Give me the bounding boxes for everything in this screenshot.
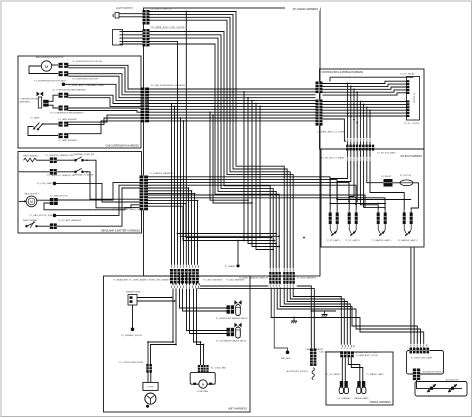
connector stack conditioner fan A: [198, 365, 203, 373]
svg-text:TO_RAG_MOTOR: TO_RAG_MOTOR: [50, 195, 68, 198]
arrowhead motor feed: [24, 200, 27, 202]
lamp socket L2: [357, 381, 366, 394]
horn H1: [143, 382, 158, 407]
svg-text:XX_RELAY: XX_RELAY: [381, 175, 392, 178]
svg-text:TO_SUSPENSION MOTOR ASSY: TO_SUSPENSION MOTOR ASSY: [34, 80, 67, 83]
svg-text:THERMAL_FUSE_SW: THERMAL_FUSE_SW: [73, 153, 94, 156]
connector stack piddle A: [340, 351, 346, 357]
wire row2 from left: [19, 171, 50, 173]
wire rag sub: [56, 185, 140, 215]
pin ticks MX groups: [330, 210, 412, 212]
connector TO_DEFROST_HEATER_SW: [50, 157, 57, 163]
wire row1 continue: [84, 160, 140, 208]
connector stack horn: [146, 364, 152, 373]
wire bundle CT down to MX row: [323, 84, 371, 145]
fuse group 3: [377, 213, 387, 234]
fuse group 2 lamp: [350, 231, 356, 236]
harness box CONTROL BOX: [320, 69, 425, 149]
connector stack TO_WIRE_ASSY_CT_LINER lower: [316, 100, 323, 126]
svg-text:TO_WIRE_ASSY_HARN_20: TO_WIRE_ASSY_HARN_20: [112, 208, 139, 211]
harness box ACCESSORY TOP: [407, 351, 444, 375]
fuse group 3 lamp: [379, 231, 385, 236]
svg-text:ASSEMBLY: ASSEMBLY: [20, 101, 31, 104]
wire bundle liner vertical tees: [210, 92, 279, 250]
svg-text:CONTROL BOX & MOBILE HARNESS: CONTROL BOX & MOBILE HARNESS: [322, 71, 364, 74]
fuse group 4 lamp: [405, 231, 411, 236]
connector stack UNIT top 2: [177, 269, 184, 284]
svg-text:TO_LIGHT_SWITCH: TO_LIGHT_SWITCH: [151, 8, 173, 10]
wire dimmer down: [132, 305, 134, 328]
harness box PC LINER: [144, 8, 321, 276]
connector stack accessory lower: [413, 369, 420, 381]
wire valve1 feeds: [180, 274, 227, 312]
splice TO_SUSPENSION_MOTOR_ASSY: [62, 83, 66, 87]
wire bundle to piddle: [284, 284, 350, 349]
svg-text:HORN: HORN: [148, 387, 154, 389]
svg-text:TO_ST_LAMP_L: TO_ST_LAMP_L: [327, 239, 341, 242]
svg-text:TO_CONDI_FAN: TO_CONDI_FAN: [211, 367, 227, 370]
harness box CAB SUSPENSION: [18, 56, 141, 148]
connector pair TO_LAMP_ELEMENT2: [59, 133, 69, 138]
svg-text:TO_COMPRESSOR FAN ASSEMBLY: TO_COMPRESSOR FAN ASSEMBLY: [50, 111, 84, 114]
svg-text:CAB SUSPENSION HARNESS: CAB SUSPENSION HARNESS: [106, 145, 140, 148]
wire bundle CT to relay upper: [323, 77, 414, 96]
wire heater to block: [36, 159, 49, 161]
svg-text:TO_ST_LAMP_R: TO_ST_LAMP_R: [345, 239, 360, 242]
harness box MX BOX: [321, 149, 424, 247]
harness box ACCESSORY BOTTOM: [415, 382, 467, 397]
relay K1: [384, 179, 393, 187]
connector stack conditioner fan B: [203, 365, 208, 373]
svg-text:TO_OIL_PANEL: TO_OIL_PANEL: [325, 373, 340, 376]
svg-text:MX BOX HARNESS: MX BOX HARNESS: [400, 155, 422, 158]
pin ticks MX below row: [347, 158, 370, 160]
indicator lamp A2: [448, 384, 457, 392]
svg-text:EASY HEATER: EASY HEATER: [24, 155, 39, 158]
svg-text:TO_CONDITIONER HORN: TO_CONDITIONER HORN: [119, 362, 144, 364]
svg-text:TO_ST_COVER: TO_ST_COVER: [404, 123, 420, 125]
thermal fuse switch SW2: [74, 168, 84, 173]
connector dimmer wire: [128, 295, 137, 306]
svg-text:PIDDLE HARNESS: PIDDLE HARNESS: [370, 401, 391, 404]
wire bundle CT to relay lower: [323, 102, 407, 117]
svg-text:TO_ANT_HARNESS: TO_ANT_HARNESS: [226, 278, 245, 281]
svg-text:BAT_NEG: BAT_NEG: [281, 357, 291, 360]
svg-text:TO_LAMP ELEMENT: TO_LAMP ELEMENT: [58, 139, 78, 142]
svg-text:RAG MOTOR: RAG MOTOR: [25, 193, 38, 196]
connector stack PC bottom left A: [269, 272, 274, 284]
fuse group 4: [403, 213, 413, 234]
svg-text:CHANNEL_WATER: CHANNEL_WATER: [305, 348, 323, 351]
wire tee drop from light switch: [185, 12, 187, 269]
wire low lamp: [56, 183, 140, 202]
svg-text:TO_HEADLAMP_PC_LINER_BRAKET_HO: TO_HEADLAMP_PC_LINER_BRAKET_HORN_UNIT_BR…: [113, 278, 171, 281]
svg-text:TO_SPARE: TO_SPARE: [225, 265, 236, 268]
wire bundle MX bus: [330, 200, 411, 204]
resistor R1 heater element: [24, 158, 37, 162]
wire horn leads: [148, 372, 151, 382]
svg-text:TO_DIMMER_SPLICE: TO_DIMMER_SPLICE: [121, 335, 143, 337]
connector stack piddle B: [347, 351, 353, 357]
wire rag motor loop: [44, 206, 140, 210]
pin ticks PC bottom above: [270, 269, 294, 272]
wire bundle piddle interior: [342, 357, 363, 381]
svg-text:TO_CAB_SUSPENSION_HARNESS: TO_CAB_SUSPENSION_HARNESS: [151, 84, 186, 87]
svg-text:TO_WIRE_ASSY_LIVE_GAUGE: TO_WIRE_ASSY_LIVE_GAUGE: [151, 26, 185, 29]
connector stack UNIT top 3: [185, 269, 192, 284]
lamp flasher symbol: [33, 123, 43, 131]
pin ticks piddle above: [342, 345, 354, 347]
svg-text:LIGHT SWITCH: LIGHT SWITCH: [116, 8, 133, 10]
connector stack TO_LIGHT_SWITCH: [143, 10, 150, 25]
connector stack UNIT top 4: [192, 269, 199, 284]
wire rag motor out: [58, 182, 140, 200]
connector stack TO_WIRE_ASSY_CT_LINER upper: [316, 82, 323, 94]
wire bat sw: [38, 225, 50, 227]
svg-text:COMPRESSOR FAN: COMPRESSOR FAN: [20, 98, 39, 101]
svg-text:F_LAMB_ASSY_ROOM: F_LAMB_ASSY_ROOM: [356, 354, 378, 357]
connector pair TO_LAMP_ELEMENT: [59, 122, 69, 127]
wire spare drop: [237, 241, 239, 265]
connector pair TO_COMP_FAN: [59, 106, 69, 111]
splice TO_LOW_LAMP: [53, 182, 57, 186]
lamp socket L1: [339, 381, 348, 394]
svg-text:TO_WIPER/DRIP WASHER VALVE: TO_WIPER/DRIP WASHER VALVE: [216, 317, 248, 320]
svg-text:TO_LAMP ELEMENT: TO_LAMP ELEMENT: [58, 118, 78, 121]
connector row accessory top: [410, 348, 430, 354]
solenoid valve V1: [227, 300, 242, 315]
wire row2 continue: [84, 172, 140, 199]
svg-text:ST RELAY: ST RELAY: [413, 93, 416, 104]
svg-text:TO_WIRE_ASSY_CT_LINER: TO_WIRE_ASSY_CT_LINER: [317, 131, 345, 134]
wire bundle liner drops to unit: [172, 104, 184, 269]
fuse group 2: [348, 213, 358, 234]
svg-text:TO_WIRE_ASSY_STANDARD_LINER: TO_WIRE_ASSY_STANDARD_LINER: [68, 84, 104, 87]
harness box UNIT: [104, 276, 251, 412]
wire bundle light-switch circuit: [150, 12, 294, 273]
wire motor right: [37, 199, 50, 201]
splice TO_RAG_MOTOR_SUB: [53, 214, 57, 218]
connector row control to MX: [346, 145, 375, 151]
connector stack TO_WIRE_ASSY_LIVE_GAUGE: [143, 29, 150, 46]
battery disconnect switch: [25, 221, 37, 228]
connector pair TO_COMP_FAN_SW: [59, 93, 69, 98]
connector stack accessory socket: [310, 349, 316, 366]
splice TO_DIMMER: [131, 328, 135, 332]
svg-text:AIR SUSPENSION MOTOR: AIR SUSPENSION MOTOR: [36, 56, 64, 59]
wire accessory ground link: [311, 310, 336, 312]
wire bundle liner main horizontals: [148, 89, 316, 121]
wire lamp to pair: [42, 123, 59, 125]
svg-text:M: M: [30, 200, 33, 204]
connector light switch plug: [113, 13, 119, 19]
svg-text:ACCESSORY: ACCESSORY: [446, 378, 459, 381]
svg-text:OIL_CHANNEL: OIL_CHANNEL: [337, 397, 350, 400]
splice BAT_NEG: [286, 351, 290, 355]
wire row1 to right: [57, 159, 74, 161]
wire bundle headlamp long runs: [148, 177, 386, 211]
pin ticks PC bottom below: [270, 285, 294, 287]
svg-text:DIMMER WIRE: DIMMER WIRE: [126, 292, 141, 294]
wire bundle gauge circuit: [150, 32, 280, 273]
fan motor M3: [190, 372, 215, 388]
connector live gauge block: [113, 30, 123, 46]
svg-text:TO_COMP FAN SW MAIN HARNESS: TO_COMP FAN SW MAIN HARNESS: [52, 88, 86, 91]
splice TO_SPARE: [236, 264, 239, 267]
wire bundle unit-stack cross ties: [178, 234, 280, 237]
svg-text:THERMAL_FUSE_SU: THERMAL_FUSE_SU: [73, 173, 94, 176]
connector TO_DEFROST_HEATER_SU: [50, 169, 57, 175]
wire fan lower: [49, 105, 58, 108]
connector stack TO_CAB_SUSPENSION: [141, 88, 150, 123]
ground G1: [291, 318, 297, 324]
wire bundle cab suspension to liner: [65, 65, 141, 133]
svg-text:TO_SUSPENSION MOTOR SW: TO_SUSPENSION MOTOR SW: [72, 61, 102, 63]
pin ticks RB1: [410, 344, 427, 346]
svg-text:UNIT HARNESS: UNIT HARNESS: [228, 407, 248, 411]
indicator lamp A1: [427, 384, 436, 392]
connector TO_XX_BAT_HARNESS: [50, 223, 57, 229]
motor M1 air suspension: [41, 61, 51, 71]
svg-text:EASYDISRBAT: EASYDISRBAT: [23, 219, 38, 222]
connector stack TO_HEADLAMP_BATTERY: [140, 176, 149, 211]
svg-text:TO_SMTH_HSG_LAMP: TO_SMTH_HSG_LAMP: [411, 356, 433, 359]
connector TO_RAG_MOTOR: [50, 198, 58, 205]
svg-text:TO_OIL WASHER WATER VALVE: TO_OIL WASHER WATER VALVE: [216, 340, 247, 343]
wire bundle unit center: [148, 284, 204, 366]
svg-text:TO_DEFROST_HEATER_SW: TO_DEFROST_HEATER_SW: [45, 154, 73, 157]
svg-text:TO_MX_BOX_CT_HARN: TO_MX_BOX_CT_HARN: [321, 156, 344, 159]
svg-text:TO_MARKER_LAMP_L: TO_MARKER_LAMP_L: [372, 239, 392, 242]
pin break bands: [169, 138, 431, 348]
wire accessory lamps run: [424, 388, 462, 390]
wire bundle unit to accessory: [196, 284, 314, 349]
wire gauge block to stack: [123, 32, 143, 45]
pin ticks CT above row: [347, 139, 370, 141]
wire valve2 feeds: [187, 274, 227, 334]
svg-text:WASHER HARN: WASHER HARN: [354, 397, 369, 400]
motor M2 rag motor: [26, 196, 37, 207]
svg-text:ACCESSORY SWITCH: ACCESSORY SWITCH: [423, 371, 444, 374]
connector stack PC bottom right A: [283, 272, 288, 284]
svg-text:TO_LAMP_ASSY_RIGHT: TO_LAMP_ASSY_RIGHT: [355, 351, 379, 354]
fuse group 1 lamp: [331, 231, 337, 236]
wire motor to pair: [52, 64, 58, 66]
wire row2 middle: [57, 171, 74, 173]
svg-text:TO_SUSPENSION MOTOR: TO_SUSPENSION MOTOR: [72, 79, 98, 81]
ground G2: [322, 311, 328, 317]
wire relay to link: [393, 182, 401, 184]
wire bundle MX distribution: [330, 151, 418, 213]
wire bat out: [57, 188, 140, 226]
fuse group 1: [329, 213, 339, 234]
svg-text:CONDI FAN: CONDI FAN: [197, 390, 208, 393]
solenoid valve V2: [227, 323, 242, 338]
pin ticks unit below: [171, 286, 199, 288]
svg-text:TO_RAG_MOTOR_SUB: TO_RAG_MOTOR_SUB: [29, 214, 52, 217]
svg-text:TO_LAMP: TO_LAMP: [30, 117, 40, 120]
wire bundle headlamp drops to unit: [148, 188, 275, 269]
svg-text:TO_XX_BAT_HARNESS: TO_XX_BAT_HARNESS: [58, 219, 82, 222]
harness box PIDDLE: [326, 352, 393, 405]
compressor fan F1: [37, 92, 49, 109]
svg-text:M: M: [45, 64, 48, 69]
svg-text:TO_MX_BOX_MAIN: TO_MX_BOX_MAIN: [377, 151, 396, 154]
connector stack PC bottom right B: [289, 272, 294, 284]
connector pair TO_SUSPENSION_MOTOR: [59, 71, 69, 76]
wire fan upper: [49, 95, 58, 101]
cable coil accessory socket: [312, 368, 314, 380]
svg-text:TO_CHASSIS_HARNESS: TO_CHASSIS_HARNESS: [149, 172, 174, 175]
wire motor loop: [29, 66, 58, 74]
connector pair TO_SUSPENSION_MOTOR_SW: [59, 63, 69, 68]
svg-text:HEADLAMP & BATTERY HARNESS: HEADLAMP & BATTERY HARNESS: [101, 230, 140, 233]
wire motor left: [19, 200, 26, 202]
wire bundle to accessory box: [271, 248, 424, 348]
harness box HEADLAMP-BATTERY: [18, 152, 142, 234]
svg-text:PC LINER HARNESS: PC LINER HARNESS: [293, 7, 318, 11]
svg-text:ACCESSORY SOCKET: ACCESSORY SOCKET: [287, 370, 309, 373]
relay pins lower: [406, 100, 409, 117]
thermal fuse switch SW1: [74, 157, 84, 162]
svg-text:TO_LOW_LAMP: TO_LOW_LAMP: [36, 182, 52, 185]
svg-text:TO_MARKER_LAMP_R: TO_MARKER_LAMP_R: [398, 239, 419, 242]
pin ticks unit above: [171, 265, 199, 268]
fusible link F2: [400, 180, 413, 186]
wire dimmer feeds: [137, 298, 175, 302]
relay block ST relay: [407, 77, 420, 121]
connector stack UNIT top 1: [170, 269, 177, 284]
svg-text:TO_RISE_HARNESS: TO_RISE_HARNESS: [297, 277, 317, 280]
svg-text:TO_UNIT_HARNESS: TO_UNIT_HARNESS: [203, 278, 223, 281]
wire accessory jump: [417, 380, 425, 389]
wire lamp loop: [28, 127, 58, 136]
svg-text:ST_MOTOR: ST_MOTOR: [400, 175, 412, 177]
svg-text:TO_ST_RELAY: TO_ST_RELAY: [400, 73, 415, 76]
wire plug to TO_LIGHT_SWITCH stack: [119, 14, 143, 17]
svg-text:TO_WATER_LAMP: TO_WATER_LAMP: [366, 373, 384, 376]
wire rag motor loop2: [44, 203, 50, 206]
relay pins upper: [406, 80, 409, 94]
wire bat neg: [274, 284, 287, 351]
svg-text:TO_DEFROST_HEATER_SU: TO_DEFROST_HEATER_SU: [47, 174, 75, 177]
connector stack PC bottom left B: [275, 272, 280, 284]
